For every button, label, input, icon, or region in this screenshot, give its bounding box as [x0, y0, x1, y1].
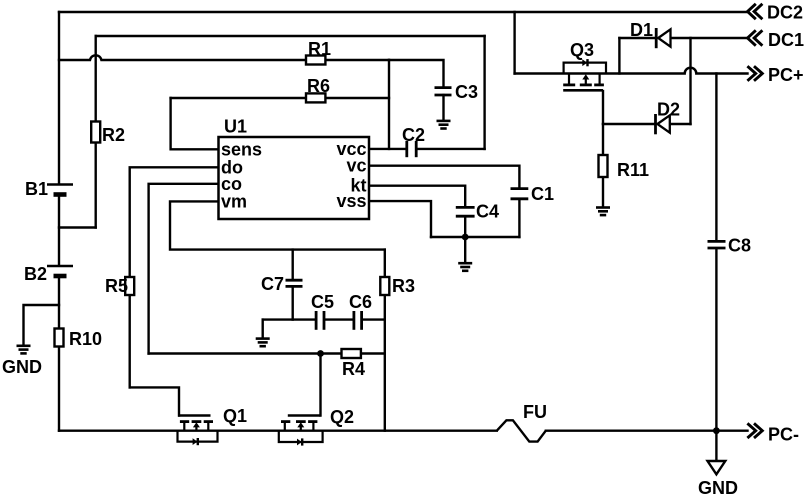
wire left GND branch [24, 305, 60, 345]
transistor Q3 [563, 59, 606, 90]
wire kt pin to C4 [369, 186, 465, 207]
svg-text:Q1: Q1 [223, 406, 247, 426]
capacitor C2 [407, 141, 416, 157]
svg-text:C7: C7 [261, 274, 284, 294]
svg-text:GND: GND [2, 357, 42, 377]
diode D1 [656, 28, 670, 48]
wire do net to Q1 gate [130, 387, 179, 415]
svg-text:R6: R6 [307, 76, 330, 96]
wire C8 bottom to PC- [715, 249, 717, 431]
wire co pin down left side [149, 184, 219, 354]
wire C1 bottom to net [518, 200, 520, 237]
terminal DC2 [748, 4, 763, 19]
wire PC- GND stub [715, 431, 717, 461]
wire C5/C6 net middle segment [325, 318, 353, 320]
node co/R4/Q2-gate junction [317, 350, 324, 357]
terminal PC+ [747, 66, 762, 81]
wire C7 GND stub [262, 320, 264, 338]
wire C8 top [715, 74, 717, 241]
svg-text:PC+: PC+ [768, 65, 804, 85]
wire R11 bottom to ground [602, 177, 604, 206]
svg-text:GND: GND [698, 478, 738, 498]
svg-text:C4: C4 [476, 202, 499, 222]
wire Q3 gate lead down [602, 91, 604, 124]
wire sens pin [171, 98, 219, 149]
ground below PC- (earth triangle) [708, 461, 726, 474]
svg-text:C8: C8 [728, 236, 751, 256]
wire vc pin to C1 [369, 166, 519, 188]
svg-text:R5: R5 [105, 276, 128, 296]
terminal DC1 [748, 30, 763, 45]
svg-text:vc: vc [346, 156, 366, 176]
node C8/PC- junction [713, 427, 720, 434]
svg-text:D2: D2 [657, 100, 680, 120]
svg-text:Q2: Q2 [330, 407, 354, 427]
svg-text:B2: B2 [24, 264, 47, 284]
wire C2-right vertical x484.6 [483, 36, 485, 149]
wire R1 net y60 with hop over R2 vertical [59, 55, 389, 60]
resistor R2 [91, 122, 100, 143]
wire DC2 drop to Q3 [513, 12, 515, 74]
wire C3 to ground [442, 95, 444, 120]
wire vss pin down [369, 201, 431, 237]
wire PC+ rail with hop over D1-D2 link [515, 68, 748, 74]
svg-text:C6: C6 [349, 292, 372, 312]
IC U1 [219, 137, 370, 219]
wire R3 vertical [384, 250, 386, 431]
svg-text:vss: vss [336, 191, 366, 211]
wire D1 net to DC1 left segment [619, 37, 655, 39]
fuse FU [497, 420, 546, 441]
ground below C4 [458, 263, 472, 271]
wire B1/B2 junction to R2 [59, 226, 96, 228]
wire C7 bottom [292, 288, 294, 320]
wire C3 hanger [389, 60, 444, 88]
svg-text:R4: R4 [342, 359, 365, 379]
capacitor C4 [456, 207, 475, 216]
resistor R1 [306, 56, 325, 65]
wire R2 vertical [94, 36, 96, 228]
resistor R11 [599, 155, 608, 177]
svg-text:U1: U1 [224, 117, 247, 137]
wire PC- rail right of fuse [546, 430, 748, 432]
wire D2 net left segment [603, 123, 654, 125]
svg-text:R2: R2 [102, 125, 125, 145]
svg-text:B1: B1 [25, 179, 48, 199]
battery B2 [47, 266, 73, 276]
transistor Q2 [279, 416, 323, 446]
ground below C3 [437, 121, 451, 129]
terminal PC- [747, 423, 762, 438]
svg-text:C3: C3 [455, 82, 478, 102]
wire vss bottom net y237 [431, 236, 519, 238]
wire left vertical B1+ down [58, 12, 60, 184]
svg-text:Q3: Q3 [570, 40, 594, 60]
battery B1 [47, 185, 73, 195]
wire R2-top net y36 [96, 35, 485, 37]
wire vm pin loop [170, 201, 385, 249]
svg-text:R11: R11 [617, 160, 649, 180]
wire C4 ground stub [464, 237, 466, 262]
capacitor C8 [708, 241, 726, 248]
svg-text:PC-: PC- [768, 425, 799, 445]
svg-text:FU: FU [523, 402, 547, 422]
wire B1 minus to B2 plus [58, 195, 60, 266]
wire Q2 gate lead [319, 354, 321, 416]
wire B2 minus down to PC- [58, 276, 60, 431]
svg-text:C5: C5 [311, 292, 334, 312]
svg-text:D1: D1 [630, 20, 653, 40]
svg-text:C1: C1 [531, 184, 554, 204]
wire R6 net y98 [171, 97, 389, 99]
capacitor C6 [354, 311, 362, 330]
wire vm net down C7 [292, 250, 294, 279]
wire top net B1+ to DC2 [59, 11, 748, 13]
capacitor C5 [316, 311, 324, 330]
wire co/R4 net y353.5 [149, 352, 385, 354]
wire D1 anode riser [618, 38, 620, 74]
wire do pin to R5 [130, 167, 219, 387]
svg-text:R1: R1 [308, 39, 331, 59]
resistor R4 [342, 349, 361, 358]
svg-text:C2: C2 [402, 125, 425, 145]
capacitor C3 [435, 88, 452, 95]
ground below C7 [256, 339, 270, 347]
resistor R3 [380, 277, 389, 295]
svg-text:DC2: DC2 [767, 3, 803, 23]
svg-text:vm: vm [221, 191, 247, 211]
wire D1 to D2 link vertical [689, 38, 691, 124]
svg-text:R10: R10 [69, 329, 102, 349]
resistor R6 [306, 93, 325, 102]
wire R11 top [602, 124, 604, 155]
ground near B2 [17, 346, 31, 354]
diode D2 [656, 114, 670, 134]
resistor R10 [55, 329, 64, 347]
wire PC- rail left of fuse [59, 430, 497, 432]
ground below R11 [596, 208, 610, 216]
wire D2 net right segment [670, 123, 691, 125]
wire D1 net to DC1 right segment [671, 37, 748, 39]
wire vcc pin to C2 [369, 148, 406, 150]
wire C5/C6 net left segment [263, 318, 315, 320]
wire R1/R6 to vcc vertical x389 [388, 60, 390, 149]
transistor Q1 [178, 416, 218, 446]
svg-text:R3: R3 [392, 276, 415, 296]
resistor R5 [125, 277, 134, 295]
capacitor C1 [511, 189, 529, 199]
wire C5/C6 net right segment [363, 318, 385, 320]
wire C2 to C2-right vertical [417, 148, 485, 150]
svg-text:DC1: DC1 [768, 30, 804, 50]
capacitor C7 [286, 280, 303, 286]
node C4/vss-net/GND junction [462, 234, 469, 241]
wire C4 bottom to net [464, 217, 466, 237]
